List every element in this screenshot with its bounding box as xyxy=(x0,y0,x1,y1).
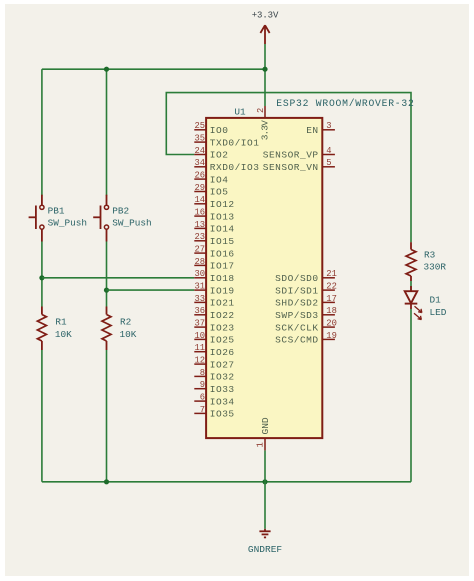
svg-text:5: 5 xyxy=(326,158,331,168)
svg-text:33: 33 xyxy=(194,294,205,304)
U1 pin 13 IO14 xyxy=(194,220,234,235)
wire PB2 bottom to R2 xyxy=(106,242,108,307)
svg-text:IO16: IO16 xyxy=(210,248,235,259)
svg-text:IO4: IO4 xyxy=(210,174,229,185)
U1 pin 28 IO17 xyxy=(194,257,234,272)
svg-text:34: 34 xyxy=(194,158,205,168)
svg-text:35: 35 xyxy=(194,134,205,144)
svg-text:10K: 10K xyxy=(120,329,137,340)
svg-text:3: 3 xyxy=(326,121,331,131)
svg-text:21: 21 xyxy=(326,269,337,279)
svg-text:R2: R2 xyxy=(120,317,131,328)
U1 pin 27 IO16 xyxy=(194,245,234,260)
U1 pin 1 GND (bottom) xyxy=(256,417,272,450)
svg-text:22: 22 xyxy=(326,282,337,292)
wire top rail from PB1 column to +3.3V xyxy=(42,68,265,70)
U1 pin 11 IO26 xyxy=(194,343,234,358)
resistor R1 xyxy=(37,307,46,351)
svg-text:IO17: IO17 xyxy=(210,261,235,272)
svg-text:ESP32 WROOM/WROVER-32: ESP32 WROOM/WROVER-32 xyxy=(276,98,414,109)
LED D1 xyxy=(405,286,422,320)
junction IO19 wire / PB2 column xyxy=(104,288,109,293)
svg-text:16: 16 xyxy=(194,208,205,218)
svg-text:3.3V: 3.3V xyxy=(259,120,270,140)
svg-text:IO25: IO25 xyxy=(210,335,235,346)
U1 pin 14 IO12 xyxy=(194,195,234,210)
U1 pin 16 IO13 xyxy=(194,208,234,223)
svg-text:SW_Push: SW_Push xyxy=(48,218,87,229)
svg-text:IO13: IO13 xyxy=(210,211,235,222)
svg-text:6: 6 xyxy=(200,393,205,403)
svg-text:IO14: IO14 xyxy=(210,224,235,235)
svg-text:37: 37 xyxy=(194,319,205,329)
resistor R3 xyxy=(406,242,416,281)
U1 pin 18 SWP/SD3 xyxy=(275,306,337,321)
svg-text:13: 13 xyxy=(194,220,205,230)
U1 pin 25 IO0 xyxy=(194,121,228,136)
U1 pin 3 EN xyxy=(306,121,335,136)
wire net IO18 to U1 pin 30 xyxy=(42,277,194,279)
svg-text:IO21: IO21 xyxy=(210,298,235,309)
svg-text:+3.3V: +3.3V xyxy=(252,11,279,21)
svg-text:GND: GND xyxy=(260,417,271,434)
junction bottom rail / R2 column xyxy=(104,479,109,484)
svg-text:SENSOR_VP: SENSOR_VP xyxy=(263,150,319,161)
wire ground rail to GNDREF symbol xyxy=(264,482,266,529)
svg-text:IO33: IO33 xyxy=(210,384,235,395)
svg-text:11: 11 xyxy=(194,343,205,353)
svg-text:26: 26 xyxy=(194,171,205,181)
wire R3 to D1 xyxy=(410,281,412,292)
wire PB1 column top xyxy=(41,69,43,195)
wire PB2 column top xyxy=(106,69,108,195)
wire U1 GND pin to ground rail xyxy=(264,450,266,481)
svg-text:31: 31 xyxy=(194,282,205,292)
U1 pin 29 IO5 xyxy=(194,183,228,198)
svg-text:R1: R1 xyxy=(55,317,67,328)
push button switch PB1 xyxy=(29,195,44,242)
svg-text:10K: 10K xyxy=(55,329,72,340)
resistor R2 xyxy=(102,307,111,351)
svg-text:TXD0/IO1: TXD0/IO1 xyxy=(210,137,260,148)
svg-text:U1: U1 xyxy=(234,107,246,118)
svg-text:SCS/CMD: SCS/CMD xyxy=(275,335,318,346)
svg-text:IO22: IO22 xyxy=(210,310,235,321)
svg-text:SWP/SD3: SWP/SD3 xyxy=(275,310,318,321)
push button switch PB2 xyxy=(93,195,108,242)
junction top rail / PB2 column xyxy=(104,67,109,72)
IC U1 ESP32 body xyxy=(206,118,322,438)
U1 pin 6 IO34 xyxy=(194,393,234,408)
svg-text:30: 30 xyxy=(194,269,205,279)
svg-text:LED: LED xyxy=(430,307,447,318)
svg-text:28: 28 xyxy=(194,257,205,267)
svg-text:IO35: IO35 xyxy=(210,409,235,420)
svg-text:2: 2 xyxy=(256,108,266,113)
svg-text:4: 4 xyxy=(326,146,331,156)
U1 pin 21 SDO/SD0 xyxy=(275,269,337,284)
svg-text:R3: R3 xyxy=(424,250,436,261)
svg-text:SCK/CLK: SCK/CLK xyxy=(275,322,318,333)
svg-text:8: 8 xyxy=(200,368,205,378)
svg-text:IO2: IO2 xyxy=(210,150,229,161)
U1 pin 7 IO35 xyxy=(194,405,234,420)
U1 pin 8 IO32 xyxy=(194,368,234,383)
svg-text:10: 10 xyxy=(194,331,205,341)
svg-text:IO15: IO15 xyxy=(210,236,235,247)
svg-text:19: 19 xyxy=(326,331,337,341)
svg-text:18: 18 xyxy=(326,306,337,316)
junction IO18 wire / PB1 column xyxy=(39,275,44,280)
wire +3.3V down to U1 pin 2 xyxy=(264,44,266,106)
svg-text:12: 12 xyxy=(194,356,205,366)
U1 pin 37 IO23 xyxy=(194,319,234,334)
U1 pin 12 IO27 xyxy=(194,356,234,371)
svg-text:IO34: IO34 xyxy=(210,396,235,407)
wire net IO19 to U1 pin 31 xyxy=(107,289,195,291)
U1 pin 33 IO21 xyxy=(194,294,234,309)
wire net IO2: U1 pin 24 left, up and across to R3 column xyxy=(166,93,411,243)
junction bottom rail / GND pin xyxy=(262,479,267,484)
U1 pin 19 SCS/CMD xyxy=(275,331,337,346)
U1 pin 31 IO19 xyxy=(194,282,234,297)
U1 pin 2 3.3V (top) xyxy=(256,106,270,140)
svg-text:IO18: IO18 xyxy=(210,273,235,284)
svg-text:SDI/SD1: SDI/SD1 xyxy=(275,285,318,296)
power symbol +3.3V xyxy=(260,25,269,44)
U1 pin 36 IO22 xyxy=(194,306,234,321)
svg-text:1: 1 xyxy=(256,442,266,447)
U1 pin 23 IO15 xyxy=(194,232,234,247)
U1 pin 34 RXD0/IO3 xyxy=(194,158,259,173)
svg-text:IO12: IO12 xyxy=(210,199,235,210)
svg-text:EN: EN xyxy=(306,125,318,136)
U1 pin 17 SHD/SD2 xyxy=(275,294,337,309)
svg-text:IO19: IO19 xyxy=(210,285,235,296)
U1 pin 26 IO4 xyxy=(194,171,228,186)
junction top rail / +3.3V xyxy=(262,67,267,72)
U1 pin 20 SCK/CLK xyxy=(275,319,337,334)
U1 pin 9 IO33 xyxy=(194,380,234,395)
svg-text:25: 25 xyxy=(194,121,205,131)
U1 pin 22 SDI/SD1 xyxy=(275,282,337,297)
wire R1 bottom to ground rail xyxy=(41,350,43,482)
svg-text:330R: 330R xyxy=(424,262,447,273)
svg-text:27: 27 xyxy=(194,245,205,255)
svg-text:RXD0/IO3: RXD0/IO3 xyxy=(210,162,260,173)
svg-text:SENSOR_VN: SENSOR_VN xyxy=(263,162,319,173)
svg-text:29: 29 xyxy=(194,183,205,193)
svg-text:IO23: IO23 xyxy=(210,322,235,333)
U1 pin 5 SENSOR_VN xyxy=(263,158,335,173)
svg-text:24: 24 xyxy=(194,146,205,156)
wire D1 to ground rail xyxy=(410,309,412,482)
svg-text:IO32: IO32 xyxy=(210,372,235,383)
svg-text:PB2: PB2 xyxy=(112,206,129,217)
U1 pin 24 IO2 xyxy=(194,146,228,161)
U1 pin 35 TXD0/IO1 xyxy=(194,134,259,149)
svg-text:23: 23 xyxy=(194,232,205,242)
wire R2 bottom to ground rail xyxy=(106,350,108,482)
U1 pin 30 IO18 xyxy=(194,269,234,284)
svg-text:SDO/SD0: SDO/SD0 xyxy=(275,273,318,284)
wire PB1 bottom to R1 xyxy=(41,242,43,307)
U1 pin 10 IO25 xyxy=(194,331,234,346)
svg-text:IO5: IO5 xyxy=(210,187,229,198)
svg-text:IO27: IO27 xyxy=(210,359,235,370)
svg-text:17: 17 xyxy=(326,294,337,304)
svg-text:IO0: IO0 xyxy=(210,125,229,136)
svg-text:SW_Push: SW_Push xyxy=(112,218,151,229)
svg-text:PB1: PB1 xyxy=(48,206,65,217)
svg-text:36: 36 xyxy=(194,306,205,316)
svg-text:SHD/SD2: SHD/SD2 xyxy=(275,298,318,309)
ground symbol GNDREF xyxy=(259,529,270,538)
svg-text:20: 20 xyxy=(326,319,337,329)
svg-text:IO26: IO26 xyxy=(210,347,235,358)
wire bottom ground rail xyxy=(42,481,411,483)
svg-text:D1: D1 xyxy=(430,295,442,306)
svg-text:GNDREF: GNDREF xyxy=(248,544,283,555)
svg-text:7: 7 xyxy=(200,405,205,415)
svg-text:14: 14 xyxy=(194,195,205,205)
svg-text:9: 9 xyxy=(200,380,205,390)
U1 pin 4 SENSOR_VP xyxy=(263,146,335,161)
